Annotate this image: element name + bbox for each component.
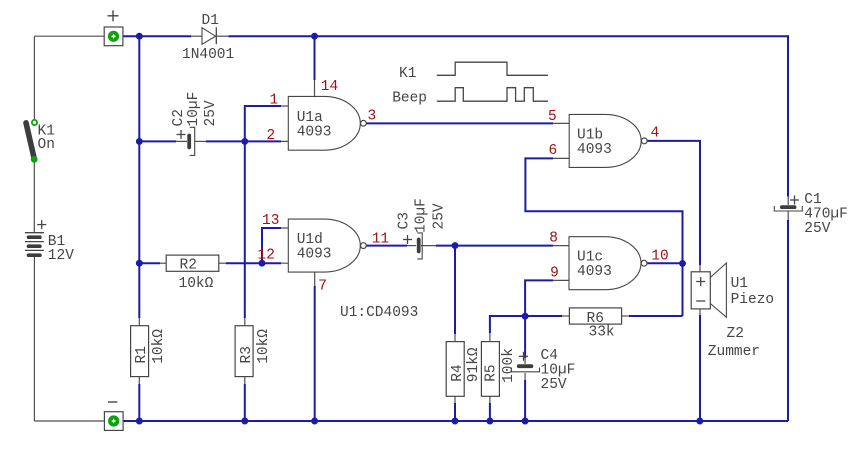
capacitor C1 xyxy=(774,192,848,237)
battery B1 xyxy=(25,220,74,264)
wire R2 left xyxy=(139,262,160,264)
svg-text:10kΩ: 10kΩ xyxy=(151,329,167,364)
pin stub R1 bottom xyxy=(138,377,140,386)
pin stub D1 cathode xyxy=(215,35,230,37)
node junction C4 top xyxy=(522,313,529,320)
pin stub C1 top xyxy=(787,196,789,205)
pin stub R3 top xyxy=(244,317,246,326)
pin stub R4 top xyxy=(454,332,456,341)
wire VCC top rail right xyxy=(229,35,789,37)
svg-text:R4: R4 xyxy=(450,364,466,381)
resistor R3 xyxy=(235,326,272,377)
pin stub C4 top xyxy=(524,356,526,364)
node junction piezo bottom xyxy=(696,418,703,425)
wire U1b output to piezo xyxy=(647,141,700,265)
svg-text:2: 2 xyxy=(267,128,276,144)
pin stub U1d pin12 xyxy=(271,262,288,264)
svg-text:Beep: Beep xyxy=(392,91,427,107)
resistor R5 xyxy=(481,342,516,397)
wire bottom left horizontal to terminal xyxy=(34,420,104,422)
svg-text:R3: R3 xyxy=(239,346,255,363)
node junction bottom terminal xyxy=(136,418,143,425)
node junction R2 left xyxy=(136,260,143,267)
wire R4 bottom xyxy=(454,403,456,421)
svg-text:14: 14 xyxy=(321,79,338,95)
pin stub U1d pin13 xyxy=(271,227,288,229)
wire battery branch top horizontal xyxy=(34,35,104,37)
pin stub U1a pin2 xyxy=(271,140,288,142)
svg-text:1N4001: 1N4001 xyxy=(182,47,234,63)
svg-text:10kΩ: 10kΩ xyxy=(256,329,272,364)
wire pin9 elbow xyxy=(525,280,553,358)
pin stub U1c pin8 xyxy=(552,245,569,247)
capacitor C4 xyxy=(512,348,576,393)
node junction R3 bottom xyxy=(241,418,248,425)
wire R3 bottom xyxy=(244,384,246,421)
svg-text:U1:CD4093: U1:CD4093 xyxy=(340,305,418,321)
svg-text:10kΩ: 10kΩ xyxy=(179,276,214,292)
pin stub C4 bottom xyxy=(524,373,526,382)
pin stub R4 bottom xyxy=(454,396,456,405)
pin stub R5 top xyxy=(489,332,491,341)
pin stub U1b pin5 xyxy=(552,122,569,124)
wire piezo bottom down xyxy=(699,315,701,421)
wire terminal minus stub xyxy=(123,420,139,422)
node junction pin10 xyxy=(679,260,686,267)
svg-text:1: 1 xyxy=(270,92,279,108)
terminal pad plus xyxy=(104,10,123,45)
node junction C2 left xyxy=(136,138,143,145)
svg-text:9: 9 xyxy=(550,266,559,282)
svg-text:8: 8 xyxy=(549,231,558,247)
svg-text:U1c: U1c xyxy=(577,249,603,265)
capacitor C2 xyxy=(171,92,219,156)
svg-text:On: On xyxy=(38,137,55,153)
svg-text:25V: 25V xyxy=(541,377,567,393)
pin stub C2 right xyxy=(195,140,211,142)
wire right rail xyxy=(787,35,789,196)
svg-text:C2: C2 xyxy=(171,109,187,126)
nand gate U1b xyxy=(548,109,659,167)
svg-text:25V: 25V xyxy=(804,221,830,237)
pin stub C1 bottom xyxy=(787,211,789,222)
svg-text:4093: 4093 xyxy=(577,142,612,158)
pin stub R6 right xyxy=(622,315,631,317)
node junction C2 right xyxy=(241,138,248,145)
pin stub U1a pin1 xyxy=(271,105,288,107)
svg-text:33k: 33k xyxy=(589,325,615,341)
pin stub piezo bottom xyxy=(699,309,701,318)
svg-text:Piezo: Piezo xyxy=(731,292,775,308)
svg-text:R2: R2 xyxy=(180,258,197,274)
wire pin6 feedback xyxy=(525,158,682,316)
pin stub R3 bottom xyxy=(244,377,246,386)
piezo buzzer Z2 U1 xyxy=(691,263,774,360)
svg-text:25V: 25V xyxy=(432,203,448,229)
svg-text:K1: K1 xyxy=(399,66,416,82)
node junction C4 bottom xyxy=(522,418,529,425)
resistor R6 xyxy=(569,308,621,341)
svg-text:4093: 4093 xyxy=(297,124,332,140)
svg-text:R1: R1 xyxy=(134,346,150,363)
node junction pin11 R4 xyxy=(452,242,459,249)
wire battery branch left vertical upper xyxy=(33,36,35,120)
svg-text:R5: R5 xyxy=(484,364,500,381)
pin stub R6 left xyxy=(560,315,569,317)
wire bottom rail xyxy=(139,420,788,422)
pin stub C3 right xyxy=(421,245,438,247)
wire R6 right xyxy=(629,315,683,317)
nand gate U1a xyxy=(267,79,377,150)
pin stub R2 left xyxy=(157,262,166,264)
node junction pin7 bottom xyxy=(311,418,318,425)
svg-text:25V: 25V xyxy=(203,100,219,126)
wire C3 right to pin8 xyxy=(436,245,553,247)
resistor R4 xyxy=(446,342,482,397)
nand gate U1d xyxy=(258,213,390,295)
wire C2 junction down to R3 xyxy=(244,141,246,318)
waveform diagram K1 xyxy=(399,62,548,82)
pin stub U1d pin7 xyxy=(314,272,316,288)
node junction top terminal xyxy=(136,33,143,40)
pin stub U1c pin9 xyxy=(552,279,569,281)
node junction pin14 xyxy=(311,33,318,40)
wire R5 bottom xyxy=(489,403,491,421)
wire pin14 drop xyxy=(314,36,316,80)
pin stub U1a pin14 xyxy=(314,78,316,97)
wire C2 to pin2 xyxy=(206,140,281,142)
svg-text:7: 7 xyxy=(318,279,327,295)
node junction R4 bottom xyxy=(452,418,459,425)
svg-text:3: 3 xyxy=(368,109,377,125)
diode D1 xyxy=(182,13,234,63)
pin stub piezo top xyxy=(699,264,701,272)
wire switch to battery xyxy=(33,160,35,233)
wire R6 left horizontal xyxy=(490,316,562,333)
pin stub R5 bottom xyxy=(489,396,491,405)
svg-text:C3: C3 xyxy=(397,212,413,229)
wire C4 bottom xyxy=(524,380,526,421)
wire R2 right to pin12 xyxy=(226,262,281,264)
wire C2 left xyxy=(139,140,176,142)
svg-text:Zummer: Zummer xyxy=(708,344,760,360)
svg-text:12: 12 xyxy=(258,247,275,263)
svg-text:12V: 12V xyxy=(48,248,74,264)
pin stub C2 left xyxy=(170,140,187,142)
wire R4 top vertical xyxy=(454,246,456,334)
node junction pin12 xyxy=(259,260,266,267)
pin stub D1 anode xyxy=(190,35,203,37)
svg-text:6: 6 xyxy=(549,143,558,159)
terminal pad minus xyxy=(104,402,123,430)
svg-text:91kΩ: 91kΩ xyxy=(466,347,482,382)
svg-text:100k: 100k xyxy=(501,348,517,383)
svg-text:13: 13 xyxy=(262,213,279,229)
svg-text:4093: 4093 xyxy=(297,246,332,262)
wire U1c output to junction xyxy=(647,262,682,264)
svg-text:10µF: 10µF xyxy=(186,92,202,127)
svg-text:D1: D1 xyxy=(202,13,219,29)
svg-text:4: 4 xyxy=(651,126,660,142)
wire left vertical rail lower xyxy=(138,384,140,421)
resistor R2 xyxy=(166,255,219,292)
svg-text:4093: 4093 xyxy=(577,264,612,280)
pin stub U1b pin6 xyxy=(552,157,569,159)
svg-text:5: 5 xyxy=(548,109,557,125)
node junction R5 bottom xyxy=(486,418,493,425)
pin stub R2 right xyxy=(219,262,228,264)
wire left vertical rail xyxy=(138,36,140,318)
wire pin1 branch vertical xyxy=(245,106,281,141)
svg-text:10µF: 10µF xyxy=(414,198,430,233)
wire battery to bottom corner xyxy=(33,255,35,421)
wire pin7 down xyxy=(314,286,316,421)
resistor R1 xyxy=(131,326,168,377)
wire pin13 feedback vertical xyxy=(262,228,281,263)
svg-text:U1: U1 xyxy=(731,276,748,292)
wire VCC top rail left xyxy=(123,35,191,37)
nand gate U1c xyxy=(549,231,668,290)
wire right rail lower xyxy=(787,220,789,421)
waveform diagram Beep xyxy=(392,88,548,107)
svg-text:11: 11 xyxy=(372,231,389,247)
pin stub R1 top xyxy=(138,317,140,326)
wire U1d output through C3 xyxy=(367,245,408,247)
svg-text:Z2: Z2 xyxy=(727,326,744,342)
capacitor C3 xyxy=(397,198,448,259)
svg-text:10: 10 xyxy=(651,248,668,264)
wire U1a output to pin5 xyxy=(367,122,554,124)
pin stub C3 left xyxy=(405,245,416,247)
switch K1 xyxy=(26,120,55,163)
